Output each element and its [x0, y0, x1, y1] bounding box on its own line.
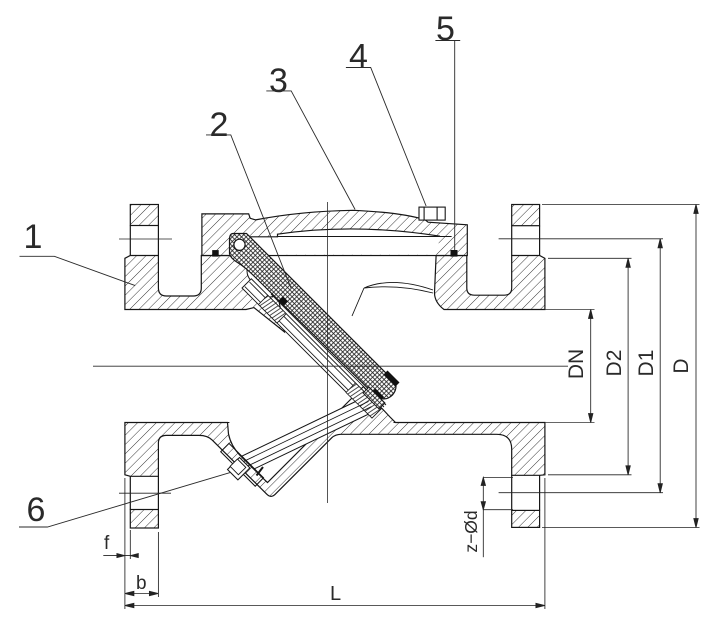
plug head facet — [230, 459, 246, 475]
bolt hole centerlines — [119, 239, 663, 493]
svg-text:D1: D1 — [635, 350, 658, 377]
svg-text:6: 6 — [27, 491, 46, 529]
callout 1 — [20, 256, 136, 285]
left flange top block — [130, 205, 158, 226]
svg-text:z−Ød: z−Ød — [461, 510, 481, 552]
ring thread zone lower — [346, 383, 381, 418]
bore lines — [125, 310, 545, 423]
DN dim — [590, 310, 592, 423]
chamber back visible line — [277, 236, 452, 238]
f dimension — [103, 478, 138, 609]
svg-text:D2: D2 — [603, 350, 626, 377]
bottom body: left web + sump V + right web — [125, 387, 545, 497]
svg-text:5: 5 — [436, 10, 455, 48]
callout 2 — [206, 135, 291, 288]
ring thread zone upper — [259, 295, 287, 323]
left flange bottom block — [130, 510, 158, 529]
svg-text:3: 3 — [269, 62, 288, 100]
plug head — [228, 458, 250, 480]
svg-text:1: 1 — [24, 218, 43, 256]
right flange bolt hole edges — [512, 226, 540, 511]
callout 6 — [19, 472, 231, 527]
dimension lines right — [542, 205, 700, 528]
z-phi-d dimension — [481, 478, 513, 558]
left flange bolt hole edges — [130, 226, 158, 510]
plate pivot dot — [279, 297, 289, 307]
centerline vertical — [326, 202, 328, 503]
seat pocket tongue — [247, 264, 277, 298]
L dimension — [125, 478, 545, 609]
plug shank bore lines across collar — [244, 401, 369, 461]
bore extension to DN — [545, 310, 595, 423]
svg-text:f: f — [104, 533, 110, 554]
D1 dim — [659, 239, 661, 493]
callout 5 — [435, 41, 460, 251]
drain boss collar — [221, 401, 372, 486]
ring bore lines — [250, 282, 379, 411]
bonnet chamber white cutout — [240, 229, 440, 255]
svg-text:D: D — [670, 358, 693, 373]
bonnet dome — [202, 210, 467, 255]
collar end thick mark — [257, 467, 264, 476]
rubber lip at disc end — [363, 387, 385, 409]
svg-text:L: L — [330, 583, 341, 605]
hinge pin — [234, 239, 245, 250]
callout 3 — [266, 91, 355, 210]
bonnet plug item4 — [419, 207, 445, 220]
open disc crescent — [352, 282, 433, 316]
svg-text:2: 2 — [210, 106, 229, 144]
callout 4 — [346, 68, 426, 207]
D dim — [542, 204, 700, 206]
disc plate lines — [270, 289, 387, 408]
upper body right: right column + barrel wall + flange web — [435, 256, 545, 310]
D2 dim — [548, 257, 632, 259]
right flange top block — [512, 205, 540, 226]
centerline horizontal — [93, 365, 568, 367]
svg-text:4: 4 — [349, 38, 368, 76]
disc seal bars — [279, 297, 400, 402]
upper body left: flange web + barrel wall + left column — [125, 256, 285, 332]
svg-text:b: b — [136, 573, 147, 594]
seat ring — [242, 279, 381, 418]
disc assembly cross hatched — [230, 234, 396, 399]
svg-text:DN: DN — [565, 349, 588, 379]
gasket dots item5 — [212, 250, 219, 257]
drain tube to boss — [242, 397, 374, 469]
right flange bottom block — [512, 510, 540, 527]
b dimension — [125, 532, 158, 597]
